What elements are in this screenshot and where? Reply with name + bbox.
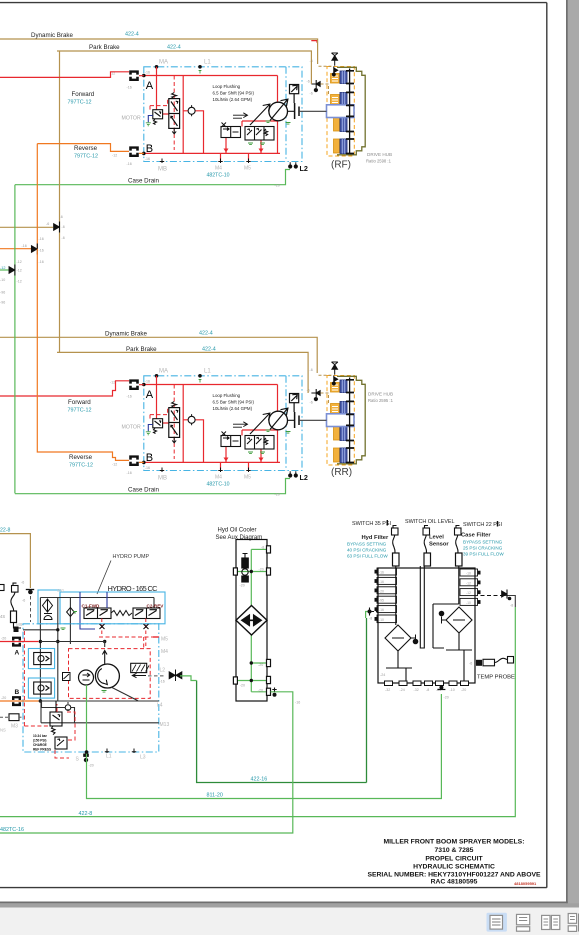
orifice arrow left <box>132 673 146 677</box>
drain bus with orifice <box>42 701 75 723</box>
svg-text:Case Filter: Case Filter <box>461 532 491 538</box>
page bottom edge shadow <box>0 902 568 904</box>
cooler arrow glyph <box>242 615 261 625</box>
svg-text:-32: -32 <box>414 688 419 692</box>
pump blue dash-dot box <box>23 624 159 752</box>
servo pilot red dashes down <box>102 619 146 649</box>
svg-text:HYDRAULIC SCHEMATIC: HYDRAULIC SCHEMATIC <box>413 864 495 871</box>
svg-text:-20: -20 <box>240 683 245 687</box>
svg-text:-20: -20 <box>379 589 384 593</box>
svg-text:(RR): (RR) <box>331 467 352 478</box>
svg-text:HYDRO - 165 CC: HYDRO - 165 CC <box>108 584 159 593</box>
svg-text:4818059591: 4818059591 <box>514 881 537 886</box>
case line connector <box>169 670 182 682</box>
svg-text:-96: -96 <box>0 291 5 295</box>
svg-text:797TC-12: 797TC-12 <box>69 462 93 468</box>
case drain stub left green <box>0 269 12 271</box>
svg-text:TEMP PROBE: TEMP PROBE <box>477 674 515 680</box>
reverse wire RR orange <box>37 249 144 463</box>
tan end connector <box>26 590 34 595</box>
svg-text:M13: M13 <box>160 722 170 728</box>
cooler internal green riser <box>250 549 252 691</box>
hyd filter teal notes <box>347 542 388 559</box>
svg-text:-10: -10 <box>466 572 471 576</box>
svg-text:-8: -8 <box>369 617 372 621</box>
hyd filter outlet <box>386 651 412 681</box>
svg-text:-20: -20 <box>259 568 264 572</box>
case filter teal notes <box>463 540 504 557</box>
manifold line B bottom <box>39 700 159 702</box>
A feed coupler <box>12 637 21 647</box>
cooler port left1 <box>233 568 237 575</box>
svg-text:Reverse: Reverse <box>69 454 93 461</box>
pressure switch 35psi <box>392 526 399 554</box>
Level Sensor label <box>429 535 449 548</box>
relief setting text <box>33 734 51 752</box>
svg-text:797TC-12: 797TC-12 <box>68 407 92 413</box>
svg-text:-96: -96 <box>0 301 5 305</box>
servo control cyan box <box>60 592 165 624</box>
svg-text:22-8: 22-8 <box>0 528 10 534</box>
bypass cartridge valve <box>242 554 249 583</box>
tank bottom labels <box>380 673 466 692</box>
svg-text:A: A <box>15 650 20 657</box>
red M5 tick <box>153 636 159 638</box>
labels -6 tan <box>21 581 25 603</box>
svg-text:7310 & 7285: 7310 & 7285 <box>435 847 474 854</box>
svg-text:-6: -6 <box>60 215 63 219</box>
servo cylinder cyan box lower <box>28 678 54 698</box>
cooler mid stubs <box>235 663 267 692</box>
svg-text:-16: -16 <box>160 680 165 684</box>
small drain valve <box>63 673 71 681</box>
svg-text:-24: -24 <box>380 673 385 677</box>
pump drain diagonal <box>111 687 138 701</box>
tank drain stub <box>437 686 448 700</box>
svg-text:M4: M4 <box>161 649 168 655</box>
manifold line M13 <box>41 701 159 723</box>
svg-text:SERIAL NUMBER: HEKY7310YHF0012: SERIAL NUMBER: HEKY7310YHF001227 AND ABO… <box>367 872 541 879</box>
cooler out junction <box>272 688 276 697</box>
svg-text:HYDRO PUMP: HYDRO PUMP <box>113 554 150 560</box>
cooler port right4 <box>267 676 271 683</box>
junction size labels <box>0 215 65 305</box>
red dashed pilot box <box>69 649 151 699</box>
svg-text:SWITCH 22 PSI: SWITCH 22 PSI <box>463 522 502 528</box>
svg-text:-20: -20 <box>444 696 449 700</box>
svg-text:L4: L4 <box>157 703 163 709</box>
pump pressure switch <box>11 583 18 611</box>
svg-text:BYPASS SETTING: BYPASS SETTING <box>347 542 387 547</box>
svg-text:-16: -16 <box>22 244 27 248</box>
482TC-I6 run light green <box>0 692 293 833</box>
main pump circle <box>95 664 119 688</box>
svg-text:-20: -20 <box>89 764 94 768</box>
svg-text:Park Brake: Park Brake <box>126 346 157 353</box>
svg-text:-16: -16 <box>379 580 384 584</box>
svg-text:422-4: 422-4 <box>202 347 216 353</box>
svg-text:Dynamic Brake: Dynamic Brake <box>31 32 74 39</box>
svg-text:B: B <box>15 689 20 696</box>
aux relief valve <box>55 737 67 749</box>
svg-text:(150 PSI): (150 PSI) <box>33 739 46 743</box>
oil level switch <box>423 526 430 554</box>
svg-text:-12: -12 <box>17 269 22 273</box>
svg-text:10.34 bar: 10.34 bar <box>33 734 48 738</box>
422-8 run light green <box>0 607 515 817</box>
tank left port labels <box>379 571 384 623</box>
tank left port rows <box>377 568 397 623</box>
servo bus top <box>40 598 154 702</box>
pump right port labels <box>76 637 170 763</box>
M3 sensor comp <box>0 714 23 730</box>
svg-text:M5: M5 <box>161 637 168 643</box>
servo cylinder lower <box>34 682 51 694</box>
drive section RR <box>15 362 365 497</box>
svg-text:Park Brake: Park Brake <box>89 44 120 51</box>
cooler port right5 <box>267 688 271 695</box>
check valve cyan box <box>38 590 60 624</box>
navy pilot wires <box>80 592 107 629</box>
svg-text:Sensor: Sensor <box>429 542 449 548</box>
case drain riser green <box>14 185 16 494</box>
svg-text:797TC-12: 797TC-12 <box>74 153 98 159</box>
svg-text:MILLER FRONT BOOM SPRAYER MODE: MILLER FRONT BOOM SPRAYER MODELS: <box>384 839 525 846</box>
servo valve C1 <box>84 608 111 619</box>
svg-text:DRIVE HUB: DRIVE HUB <box>367 152 392 157</box>
schematic frame border right <box>546 3 548 888</box>
svg-text:-12: -12 <box>0 266 6 270</box>
level sensor cartridge <box>424 553 431 566</box>
svg-text:-6: -6 <box>469 661 472 665</box>
cooler cross line <box>235 571 267 573</box>
schematic frame border bottom <box>0 887 547 889</box>
8II-20 run light green <box>87 694 442 799</box>
cartridge link <box>14 623 22 629</box>
red dashed M5 line <box>99 636 159 638</box>
cooler port top right <box>267 546 271 553</box>
422-8 tan feed wire <box>0 534 30 588</box>
svg-text:-12: -12 <box>466 591 471 595</box>
svg-text:Hyd Oil Cooler: Hyd Oil Cooler <box>218 528 257 534</box>
svg-text:RAC 48180595: RAC 48180595 <box>431 879 478 886</box>
svg-text:-10: -10 <box>0 278 5 282</box>
svg-text:Forward: Forward <box>72 91 95 98</box>
reverse wire RF orange <box>37 144 144 249</box>
svg-text:-6: -6 <box>46 222 49 226</box>
svg-text:L3: L3 <box>140 755 146 761</box>
tank right port labels <box>466 572 471 605</box>
switch labels <box>352 519 502 528</box>
svg-text:-10: -10 <box>450 688 455 692</box>
svg-text:-20: -20 <box>1 696 6 700</box>
forward wire RF red <box>0 72 144 78</box>
svg-text:-10: -10 <box>466 601 471 605</box>
case filter outlet <box>446 633 472 681</box>
svg-text:-8: -8 <box>261 546 264 550</box>
svg-text:BYPASS SETTING: BYPASS SETTING <box>463 540 503 545</box>
red dashes around relief <box>55 704 75 758</box>
level sensor pipes <box>420 566 424 648</box>
green ground ticks pump <box>61 612 107 693</box>
svg-text:Forward: Forward <box>68 399 91 406</box>
svg-text:(RF): (RF) <box>331 159 351 170</box>
svg-text:-6: -6 <box>21 581 24 585</box>
charge pump circle <box>79 670 94 685</box>
tan riser park brake <box>59 51 61 352</box>
tank right port rows <box>460 569 478 605</box>
svg-text:-20: -20 <box>1 637 6 641</box>
case filter top pipe <box>433 566 459 648</box>
tan feed wire left <box>0 226 53 228</box>
switch cartridge <box>11 611 17 623</box>
svg-text:-16: -16 <box>379 608 384 612</box>
link line left <box>23 629 58 631</box>
pressure switch 22psi <box>455 526 462 554</box>
hyd filter cartridge <box>393 553 400 566</box>
servo cylinder upper <box>34 653 51 665</box>
leader line <box>97 561 111 595</box>
svg-text:Reverse: Reverse <box>74 145 98 152</box>
cooler port right2 <box>267 568 271 575</box>
svg-text:797TC-12: 797TC-12 <box>68 99 92 105</box>
tank right connector <box>502 590 514 608</box>
cooler port left2 <box>233 677 237 684</box>
svg-text:-12: -12 <box>17 260 22 264</box>
check valve diamond <box>43 599 53 612</box>
green junction connector <box>9 265 15 276</box>
tank right dashed link <box>481 595 504 597</box>
svg-text:-20: -20 <box>461 688 466 692</box>
svg-text:-12: -12 <box>466 581 471 585</box>
svg-text:-8: -8 <box>510 604 513 608</box>
tank body <box>378 568 475 683</box>
svg-text:-32: -32 <box>385 688 390 692</box>
svg-text:REF PRESS: REF PRESS <box>33 748 51 752</box>
orifice filter block <box>131 663 149 672</box>
pump inlet arrow up <box>102 651 107 664</box>
hyd filter down pipe <box>395 566 397 625</box>
left edge cut component <box>0 585 4 591</box>
tank bottom ports <box>385 681 469 686</box>
svg-text:L1: L1 <box>106 754 112 760</box>
svg-text:-16: -16 <box>39 260 44 264</box>
red elbow on dynamic wire <box>311 41 317 43</box>
tank left port nubs <box>375 570 378 621</box>
junction dots cooler <box>250 570 253 573</box>
case filter cartridge <box>456 553 463 566</box>
servo cylinder cyan box upper <box>28 649 54 669</box>
svg-text:-8: -8 <box>426 688 429 692</box>
two page continuous icon (clipped) <box>568 914 579 932</box>
svg-text:M3: M3 <box>11 724 18 730</box>
svg-text:63 PSI FULL FLOW: 63 PSI FULL FLOW <box>347 554 388 559</box>
svg-text:-16: -16 <box>295 701 300 705</box>
A feed red wire <box>0 641 39 643</box>
servo valve C2 <box>133 608 160 619</box>
svg-text:-12: -12 <box>17 280 22 284</box>
temp probe port <box>469 657 514 666</box>
single page icon (active) <box>487 913 507 932</box>
svg-text:SWITCH 35 PSI: SWITCH 35 PSI <box>352 521 391 527</box>
park brake wire RR tan <box>57 352 308 393</box>
svg-text:Ratio 2595 :1: Ratio 2595 :1 <box>368 398 394 403</box>
cooler port labels <box>240 546 265 693</box>
svg-text:-16: -16 <box>39 237 44 241</box>
gray band under page <box>0 903 579 907</box>
svg-text:-95: -95 <box>379 599 384 603</box>
svg-text:482TC-16: 482TC-16 <box>0 827 24 833</box>
cooler body box <box>236 540 267 702</box>
check valve ball glyph <box>44 614 52 620</box>
switch label cursor bars <box>387 520 497 527</box>
manifold line A <box>40 642 104 648</box>
svg-text:422-4: 422-4 <box>199 330 213 336</box>
svg-text:40 PSI CRACKING: 40 PSI CRACKING <box>347 548 387 553</box>
svg-text:-16: -16 <box>379 571 384 575</box>
servo center springs <box>111 611 132 616</box>
svg-text:-20: -20 <box>240 584 245 588</box>
junction dots pump <box>39 640 42 643</box>
anticav check diamond <box>67 608 75 617</box>
hyd filter bypass <box>411 635 418 644</box>
svg-text:422-8: 422-8 <box>79 811 93 817</box>
svg-text:DRIVE HUB: DRIVE HUB <box>368 391 393 396</box>
svg-text:Dynamic Brake: Dynamic Brake <box>105 330 148 337</box>
svg-text:CHARGE: CHARGE <box>33 743 47 747</box>
title text <box>367 839 541 886</box>
charge pump arrows <box>83 673 90 680</box>
svg-text:811-20: 811-20 <box>207 793 223 799</box>
svg-text:-24: -24 <box>400 688 405 692</box>
svg-text:422-4: 422-4 <box>125 32 139 38</box>
svg-text:-6: -6 <box>62 225 65 229</box>
svg-text:-6: -6 <box>62 236 65 240</box>
hyd filter diamond <box>385 625 411 651</box>
two page icon <box>542 915 560 929</box>
cooler diamond <box>236 606 267 636</box>
drive section RF <box>15 53 365 188</box>
tank left feed junction <box>366 608 378 621</box>
svg-text:M9: M9 <box>16 622 23 627</box>
svg-text:-20: -20 <box>258 663 263 667</box>
forward wire RR red <box>0 381 144 396</box>
svg-text:422-4: 422-4 <box>167 45 181 51</box>
tan junction connector <box>54 222 60 233</box>
svg-text:NS: NS <box>0 728 6 733</box>
reverse feed wire left orange <box>0 248 34 250</box>
park brake wire RF tan <box>57 51 311 84</box>
charge relief valve <box>50 701 62 735</box>
case filter bypass <box>439 611 446 623</box>
continuous page icon <box>517 914 530 931</box>
dot at box edge <box>85 750 89 754</box>
bottom toolbar strip <box>0 908 579 935</box>
cooler top right stub <box>251 548 266 550</box>
svg-text:39 PSI FULL FLOW: 39 PSI FULL FLOW <box>463 552 504 557</box>
svg-text:L2: L2 <box>160 668 166 674</box>
dynamic brake wire RR tan <box>0 337 317 373</box>
svg-text:Level: Level <box>429 535 444 541</box>
pump to cooler link green <box>180 676 197 681</box>
cooler port right3 <box>267 659 271 666</box>
main pump swash arrow <box>98 669 108 685</box>
svg-text:-20: -20 <box>258 688 263 692</box>
pump case line to S green <box>86 685 88 762</box>
B feed coupler <box>12 696 21 706</box>
svg-text:SWITCH OIL LEVEL: SWITCH OIL LEVEL <box>405 519 455 525</box>
orange junction connector <box>32 244 38 255</box>
link connector blob <box>14 627 19 633</box>
svg-text:Ratio 2598 :1: Ratio 2598 :1 <box>366 159 392 164</box>
svg-text:Hyd Filter: Hyd Filter <box>362 535 389 541</box>
422-I6 dark green run <box>197 618 367 783</box>
page right edge shadow <box>566 0 568 904</box>
servo output x marks <box>100 624 149 629</box>
svg-text:000: 000 <box>57 588 65 593</box>
svg-text:25 PSI CRACKING: 25 PSI CRACKING <box>463 546 503 551</box>
dynamic brake wire RF tan <box>0 39 318 64</box>
B feed orange wire <box>0 700 39 702</box>
pump port ticks bottom <box>105 749 136 754</box>
case filter diamond <box>446 607 472 633</box>
svg-text:4S: 4S <box>0 614 5 619</box>
svg-text:-16: -16 <box>39 249 44 253</box>
case drain gray dashes <box>148 675 166 677</box>
tan linkage dashes <box>30 596 32 622</box>
pump S port <box>83 754 89 763</box>
svg-text:PROPEL CIRCUIT: PROPEL CIRCUIT <box>425 856 483 863</box>
red dashed left riser <box>24 631 50 726</box>
schematic frame border top <box>0 2 547 4</box>
svg-text:422-16: 422-16 <box>251 777 268 783</box>
red dashed right riser <box>143 637 145 649</box>
svg-text:-6: -6 <box>22 599 25 603</box>
svg-text:-10: -10 <box>379 618 384 622</box>
tank right port nubs <box>478 571 481 604</box>
